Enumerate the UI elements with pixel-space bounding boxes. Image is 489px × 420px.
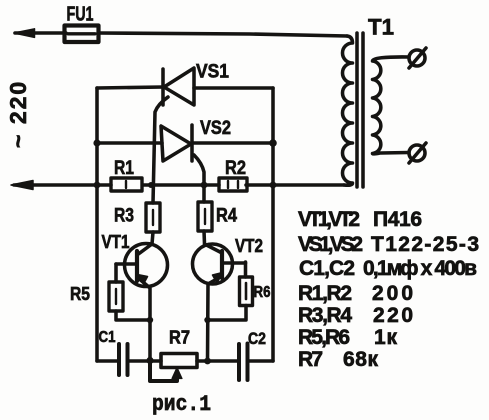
svg-text:VT1,VT2: VT1,VT2 (298, 208, 360, 231)
svg-text:~ 220: ~ 220 (5, 80, 31, 148)
svg-text:R5: R5 (70, 284, 90, 304)
svg-text:220: 220 (373, 304, 413, 327)
svg-text:C1,C2: C1,C2 (299, 257, 355, 280)
svg-text:T1: T1 (368, 15, 394, 40)
svg-text:R1,R2: R1,R2 (298, 282, 352, 305)
svg-text:1к: 1к (374, 326, 397, 349)
svg-text:C1: C1 (99, 329, 116, 346)
svg-text:FU1: FU1 (67, 4, 94, 26)
svg-text:C2: C2 (248, 329, 266, 348)
svg-text:VS1: VS1 (196, 62, 229, 83)
svg-text:VS2: VS2 (200, 118, 231, 139)
svg-text:R6: R6 (254, 284, 271, 301)
svg-text:0,1мф х 400в: 0,1мф х 400в (363, 257, 477, 280)
svg-text:R1: R1 (114, 158, 134, 179)
svg-text:R3,R4: R3,R4 (298, 304, 352, 327)
svg-text:Т122-25-3: Т122-25-3 (371, 233, 479, 256)
svg-text:R5,R6: R5,R6 (298, 326, 350, 349)
svg-text:R7: R7 (169, 328, 190, 348)
svg-text:рис.1: рис.1 (152, 392, 211, 417)
svg-text:68к: 68к (343, 348, 378, 371)
svg-text:П416: П416 (373, 208, 422, 231)
svg-text:200: 200 (372, 282, 413, 305)
svg-text:VS1,VS2: VS1,VS2 (298, 233, 363, 256)
svg-text:VT2: VT2 (235, 236, 263, 256)
svg-text:R2: R2 (225, 158, 246, 179)
svg-text:VT1: VT1 (102, 232, 130, 252)
svg-text:R7: R7 (298, 348, 323, 371)
svg-text:R4: R4 (216, 206, 237, 227)
svg-text:R3: R3 (114, 206, 134, 227)
